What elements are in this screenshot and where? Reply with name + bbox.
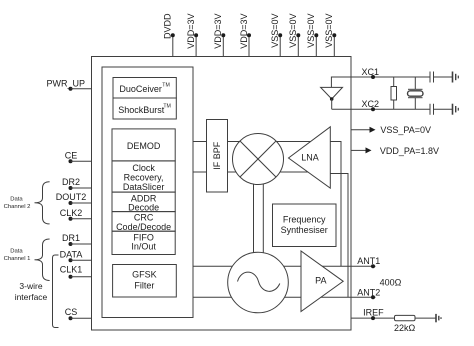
node XC2	[371, 107, 375, 111]
wire TX diff pair upper (to ANT1)	[193, 265, 376, 267]
block Clock Recovery, DataSlicer	[112, 161, 175, 192]
svg-text:DEMOD: DEMOD	[127, 141, 161, 151]
amplifier PA	[301, 251, 343, 312]
svg-text:DataSlicer: DataSlicer	[123, 182, 165, 192]
inner digital block box	[102, 67, 193, 318]
svg-text:PWR_UP: PWR_UP	[47, 79, 86, 89]
capacitor C1 (XC1)	[430, 72, 453, 83]
svg-text:DVDD: DVDD	[163, 13, 173, 39]
svg-text:3-wire: 3-wire	[19, 281, 42, 291]
svg-text:Channel 1: Channel 1	[4, 256, 31, 262]
pin DR2	[62, 177, 92, 190]
svg-text:TM: TM	[163, 104, 171, 110]
svg-text:PA: PA	[315, 276, 326, 286]
node osc output	[330, 97, 334, 101]
svg-text:VDD=3V: VDD=3V	[186, 14, 196, 49]
pin DATA	[60, 249, 92, 262]
wire mixer to VCO right	[262, 184, 264, 253]
outer chip box	[92, 57, 352, 331]
node IREF	[371, 316, 375, 320]
svg-text:CS: CS	[65, 307, 78, 317]
label 3-wire interface	[15, 281, 48, 302]
svg-text:DuoCeiver: DuoCeiver	[119, 84, 162, 94]
svg-text:GFSK: GFSK	[132, 270, 157, 280]
svg-text:Channel 2: Channel 2	[4, 204, 31, 210]
ground (XC2)	[453, 104, 459, 115]
pin VSS=0V (3)	[306, 14, 318, 57]
wire LNA lower output to ANT2	[330, 174, 348, 298]
wire VDD_PA	[351, 147, 372, 153]
resistor (crystal bias)	[391, 77, 397, 109]
node XC1	[371, 75, 375, 79]
block FIFO In/Out	[112, 231, 175, 254]
pin VSS=0V (4)	[324, 14, 336, 57]
pin VDD=3V (1)	[186, 14, 198, 57]
svg-text:CLK1: CLK1	[60, 265, 83, 275]
oscillator buffer triangle	[321, 87, 343, 99]
pin DVDD	[163, 13, 175, 56]
svg-text:Data: Data	[10, 197, 23, 203]
pin CE	[65, 151, 92, 164]
svg-text:interface: interface	[15, 292, 48, 302]
pin PWR_UP	[47, 79, 92, 91]
svg-text:Synthesiser: Synthesiser	[281, 225, 328, 235]
wire XC1	[331, 77, 430, 87]
block DuoCeiver	[113, 78, 176, 99]
svg-text:TM: TM	[162, 83, 170, 89]
pin VSS=0V (2)	[288, 14, 300, 57]
svg-text:VDD=3V: VDD=3V	[239, 14, 249, 49]
svg-text:XC1: XC1	[362, 67, 380, 77]
svg-text:DOUT2: DOUT2	[56, 192, 87, 202]
label Data Channel 1	[4, 249, 31, 262]
svg-text:VSS=0V: VSS=0V	[324, 14, 334, 48]
filter IF BPF	[207, 120, 228, 193]
svg-text:Filter: Filter	[134, 280, 154, 290]
svg-text:Decode: Decode	[128, 202, 159, 212]
svg-text:Recovery,: Recovery,	[124, 172, 164, 182]
brace data channel 2	[35, 182, 50, 224]
svg-text:DR1: DR1	[62, 233, 80, 243]
svg-text:Code/Decode: Code/Decode	[116, 222, 171, 232]
svg-text:VSS=0V: VSS=0V	[288, 14, 298, 48]
svg-text:CLK2: CLK2	[60, 208, 83, 218]
svg-text:Data: Data	[10, 249, 23, 255]
wire IREF	[351, 317, 395, 319]
svg-text:400Ω: 400Ω	[380, 277, 402, 287]
pin CS	[65, 307, 92, 320]
wire LNA upper output to ANT1	[330, 142, 341, 267]
svg-text:DR2: DR2	[62, 177, 80, 187]
block CRC Code/Decode	[112, 212, 175, 232]
svg-text:IREF: IREF	[363, 307, 384, 317]
svg-text:LNA: LNA	[301, 153, 319, 163]
svg-text:XC2: XC2	[362, 99, 380, 109]
svg-text:In/Out: In/Out	[131, 241, 156, 251]
svg-text:VDD_PA=1.8V: VDD_PA=1.8V	[380, 146, 439, 156]
svg-text:ANT2: ANT2	[357, 288, 380, 298]
block DEMOD	[112, 129, 175, 161]
pin CLK1	[60, 265, 92, 279]
svg-text:VSS_PA=0V: VSS_PA=0V	[380, 125, 431, 135]
pin VDD=3V (2)	[213, 14, 225, 57]
label Data Channel 2	[4, 197, 31, 211]
pin DOUT2	[56, 192, 92, 205]
ground (XC1)	[453, 72, 459, 83]
pin VSS=0V (1)	[270, 14, 282, 57]
svg-text:VSS=0V: VSS=0V	[270, 14, 280, 48]
svg-text:Frequency: Frequency	[283, 215, 326, 225]
svg-text:VSS=0V: VSS=0V	[306, 14, 316, 48]
block ADDR Decode	[112, 192, 175, 212]
block GFSK Filter	[113, 265, 177, 298]
capacitor C2 (XC2)	[430, 104, 453, 115]
svg-text:22kΩ: 22kΩ	[394, 323, 416, 333]
ground (IREF)	[436, 314, 441, 322]
svg-text:ShockBurst: ShockBurst	[118, 105, 165, 115]
wire mixer to VCO left	[253, 184, 255, 252]
svg-text:VDD=3V: VDD=3V	[213, 14, 223, 49]
brace data channel 1	[35, 239, 50, 281]
resistor 22k	[395, 315, 437, 320]
svg-text:ANT1: ANT1	[357, 256, 380, 266]
node ANT1	[371, 264, 375, 268]
wire RX diff pair upper	[193, 141, 312, 143]
svg-text:DATA: DATA	[60, 249, 83, 259]
oscillator VCO	[228, 252, 289, 313]
crystal X1	[408, 77, 424, 109]
pin DR1	[62, 233, 92, 246]
node ANT2	[371, 295, 375, 299]
pin VDD=3V (3)	[239, 14, 251, 57]
op-amp LNA	[289, 127, 331, 188]
wire VSS_PA	[351, 127, 376, 133]
wire TX diff pair lower (to ANT2)	[193, 296, 376, 298]
block Frequency Synthesiser	[273, 204, 337, 247]
wire XC2	[332, 108, 430, 110]
mixer	[233, 134, 284, 185]
bracket 3-wire interface	[53, 255, 59, 328]
wire osc output to XC2	[331, 99, 333, 109]
pin CLK2	[60, 208, 92, 221]
svg-text:CE: CE	[65, 151, 78, 161]
wire RX diff pair lower	[193, 171, 312, 173]
svg-text:IF BPF: IF BPF	[212, 141, 222, 170]
block ShockBurst	[113, 98, 176, 119]
